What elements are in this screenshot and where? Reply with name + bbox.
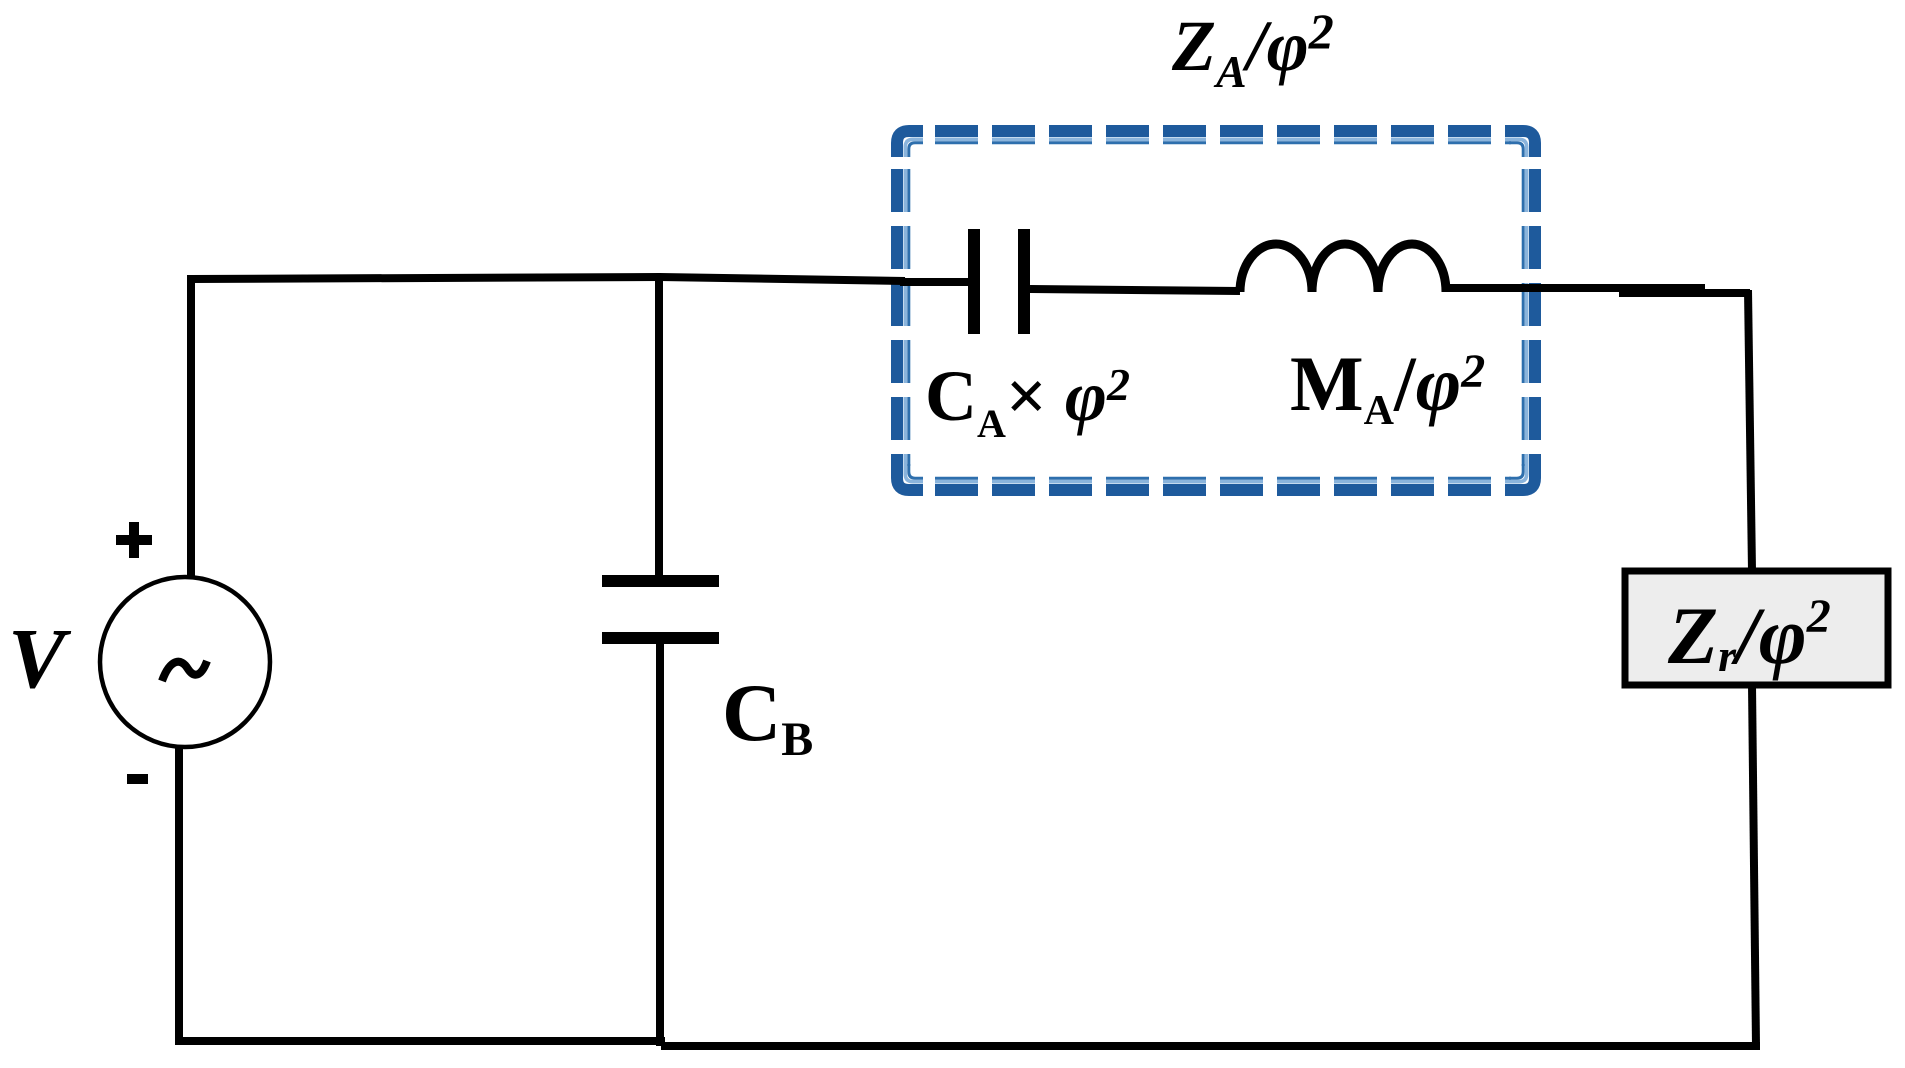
dashed box ZA left edge [897,155,909,466]
dashed box ZA corner TR [1509,131,1535,157]
wire top into box to capacitor [900,278,970,286]
wire overlap segment [1619,289,1750,297]
dashed box ZA corner TL [897,131,923,157]
wire middle vertical upper [655,277,663,581]
svg-text:Zr/φ2: Zr/φ2 [1667,590,1831,681]
wire middle vertical lower [656,638,664,1046]
source V tilde [162,661,207,681]
capacitor C1 right plate [1018,229,1030,334]
wire right vertical lower [1752,685,1756,1046]
svg-text:V: V [8,610,72,706]
dashed box ZA corner BR [1509,464,1535,490]
svg-text:ZA/φ2: ZA/φ2 [1171,3,1334,97]
wire right vertical upper [1748,290,1752,571]
wire capacitor to inductor [1030,289,1240,291]
svg-text:CA× φ2: CA× φ2 [925,356,1130,446]
wire top horizontal [191,277,905,281]
dashed box ZA top edge [921,131,1511,143]
minus sign [127,774,148,784]
wire bottom left [176,1037,665,1045]
dashed box ZA right edge [1523,155,1535,466]
inductor MA coils [1240,244,1446,292]
wire inductor to right corner [1446,284,1705,292]
svg-text:CB: CB [722,667,813,766]
wire left vertical upper [187,275,195,577]
plus sign [116,522,152,558]
wire left vertical lower [175,746,183,1045]
svg-text:MA/φ2: MA/φ2 [1290,340,1485,434]
dashed box ZA corner BL [897,464,923,490]
capacitor CB bottom plate [602,632,719,644]
capacitor C1 left plate [968,229,980,334]
impedance box Zr [1625,571,1888,685]
wire bottom right [661,1042,1760,1050]
dashed box ZA bottom edge [921,478,1511,490]
source V circle [100,577,270,747]
capacitor CB top plate [602,575,719,587]
